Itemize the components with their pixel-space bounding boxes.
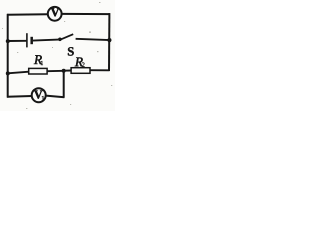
resistor R2 body box [71, 68, 90, 74]
wire: right side vertical (top corner down to R2 row corner) [108, 13, 110, 71]
switch S: open arm blade [60, 34, 74, 40]
wire: battery row from left vertical to cell [8, 40, 27, 42]
wire: top side, right segment from voltmeter V to top-right corner [62, 13, 110, 15]
voltmeter U1 label V [51, 8, 60, 16]
node: junction of resistor row with left vertical [6, 71, 10, 75]
voltmeter U1 (V) circle in top wire [48, 7, 62, 21]
wire: left side vertical (top corner to bottom corner) [7, 14, 9, 98]
wire: top side, left segment to voltmeter V [7, 13, 48, 16]
resistor R1 label [34, 55, 42, 64]
battery cell: short thick plate (-) [30, 37, 33, 44]
node: junction of battery row with left vertical [6, 39, 10, 43]
wire: bottom side from left corner to voltmeter V1 [7, 95, 32, 98]
switch S: left contact dot [58, 38, 62, 42]
voltmeter U2 label V1 [34, 90, 42, 98]
resistor R2 label [75, 57, 83, 66]
wire: riser from bottom branch up to R1-R2 junction [63, 71, 65, 98]
wire: switch to right vertical [76, 39, 110, 40]
wire: junction to resistor R2 [64, 70, 72, 72]
resistor R1 body box [29, 68, 47, 74]
scan speckles (noise) [2, 2, 112, 109]
switch S label [68, 47, 74, 55]
wire: battery to switch contact [33, 40, 59, 41]
node: junction of switch row with right vertical [107, 38, 111, 42]
wire: voltmeter V1 to riser corner [46, 96, 65, 98]
wire: left vertical to resistor R1 [8, 72, 29, 74]
voltmeter U2 (V1) circle in bottom branch [32, 88, 46, 102]
node: junction between R1 and R2 (tap to voltmeter V1 branch) [62, 69, 66, 73]
wire: R2 to right vertical corner [90, 69, 110, 71]
wire: R1 to midpoint junction [47, 70, 64, 72]
battery cell: long plate (+) [26, 33, 28, 47]
